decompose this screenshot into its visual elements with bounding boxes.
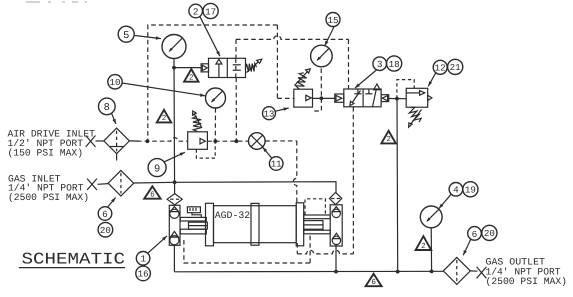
- gauge G15: [311, 45, 333, 67]
- balloon 20 inlet: [98, 222, 113, 237]
- valve V13 flow triangle: [306, 95, 312, 100]
- valve V3 left pilot: [335, 94, 344, 102]
- valve V2 flow arrow: [216, 59, 222, 77]
- balloon 9 leader: [164, 152, 185, 162]
- scan artifact: [26, 1, 87, 3]
- svg-text:19: 19: [465, 185, 476, 196]
- balloon 2: [189, 4, 203, 18]
- svg-text:16: 16: [138, 269, 149, 280]
- label gas outlet: [486, 257, 568, 287]
- filter F22 gas outlet: [443, 257, 470, 284]
- junction gauge G4 to bus: [430, 270, 434, 274]
- left clevis bottom plate: [180, 229, 206, 234]
- svg-text:2: 2: [189, 74, 194, 83]
- balloon 17: [203, 3, 218, 18]
- svg-text:8: 8: [104, 102, 110, 114]
- balloon 13 leader: [275, 108, 289, 112]
- balloon 5 leader: [135, 36, 161, 40]
- wire pilot junction to valve V2 pilot: [174, 67, 201, 69]
- dashed drop from pilot header to pilot valve V2 top: [235, 39, 238, 141]
- warning flag 2 below valve V3: [381, 131, 395, 144]
- label gas inlet: [8, 173, 89, 203]
- svg-text:6: 6: [472, 229, 478, 240]
- port X gas inlet: [87, 179, 97, 190]
- air cylinder body AGD-32: [214, 206, 297, 243]
- wire filter F6 to gas junction: [134, 181, 175, 184]
- wire right check housing down to outlet bus: [335, 244, 337, 272]
- right check top ball: [332, 209, 340, 217]
- dashed vent L under valve V13: [313, 98, 322, 111]
- right clevis top plate: [304, 215, 330, 219]
- balloon 2 leader: [200, 16, 220, 56]
- svg-text:4: 4: [453, 185, 459, 196]
- filter F8 air drive inlet: [104, 128, 130, 160]
- valve V3 right cell vent tee: [365, 89, 372, 94]
- balloon 4: [449, 183, 463, 197]
- balloon 15 leader: [325, 26, 335, 46]
- valve V2 body: [209, 58, 246, 77]
- wire filter F8 outlet to junction: [129, 140, 138, 142]
- junction gauge G10 tee: [213, 139, 217, 143]
- balloon 8 leader: [112, 113, 116, 124]
- svg-text:2: 2: [162, 114, 167, 123]
- valve V3 right pilot: [381, 95, 389, 102]
- warning flag 2 below gauge G4: [416, 236, 432, 251]
- balloon 11 leader: [263, 147, 273, 159]
- svg-text:17: 17: [205, 6, 216, 17]
- valve V13 spring: [295, 69, 311, 89]
- dashed regulated-air bus shutoff valve to corner: [265, 140, 297, 142]
- balloon 18: [387, 56, 402, 71]
- dashed pilot header y=39.4 with crossover hump: [236, 36, 349, 40]
- warning flag 2 near valve V2: [184, 69, 198, 82]
- balloon 10 leader: [122, 83, 205, 97]
- dashed air line stub at right end plate: [296, 243, 298, 254]
- valve V3 left cell arrow: [350, 91, 361, 106]
- balloon 6 outlet leader: [463, 239, 471, 256]
- regulator R9 body: [188, 132, 208, 150]
- junction pilot valve drop: [235, 139, 239, 143]
- wire gas outlet bus: [174, 270, 443, 273]
- warning flag 6 near gas inlet: [144, 186, 160, 199]
- dashed gauge G15 sensing line: [320, 68, 322, 98]
- balloon 12 leader: [428, 72, 436, 86]
- svg-text:2: 2: [193, 6, 199, 17]
- regulator R9 spring: [193, 111, 202, 132]
- svg-text:12: 12: [435, 63, 446, 74]
- left check top ball: [170, 209, 179, 218]
- right piston rod: [304, 221, 323, 230]
- valve V2 blocked symbol: [233, 65, 241, 70]
- regulator R9 flow triangle: [200, 138, 205, 144]
- dashed vent header y=253.9 with humps: [297, 250, 353, 254]
- balloon 4 leader: [439, 194, 452, 209]
- relief R12 spring: [409, 107, 422, 127]
- wire valve V13 outlet to valve V3 pilot: [313, 97, 335, 99]
- valve V11 circle-X: [248, 133, 265, 150]
- svg-text:6: 6: [371, 278, 376, 287]
- wire gauge G4 sensing drop: [430, 228, 432, 272]
- check valve CV-right diamond: [329, 192, 341, 204]
- left vent step line: [192, 213, 201, 218]
- left check housing: [169, 205, 180, 245]
- wire left check housing down to outlet bus: [173, 245, 175, 272]
- svg-text:5: 5: [123, 30, 129, 42]
- port X air drive inlet: [86, 136, 96, 147]
- svg-text:6: 6: [102, 209, 108, 220]
- svg-text:20: 20: [100, 225, 111, 236]
- svg-text:1: 1: [140, 254, 146, 265]
- dashed drop from pilot header to valve V3 top: [348, 39, 350, 89]
- dashed gauge G10 sensing line: [214, 108, 216, 141]
- port X gas outlet: [477, 267, 487, 278]
- wire air inlet X to filter F8: [96, 140, 104, 142]
- left check top seat: [170, 207, 178, 212]
- dashed gas-section boundary bottom left: [184, 240, 310, 263]
- valve V2 spring: [246, 59, 262, 72]
- right check housing: [330, 205, 342, 246]
- svg-text:11: 11: [271, 160, 282, 170]
- gauge G4: [420, 206, 442, 228]
- title SCHEMATIC: [19, 250, 125, 268]
- svg-text:(150 PSI MAX): (150 PSI MAX): [8, 147, 84, 158]
- left piston rod: [189, 222, 208, 229]
- dashed regulated-air bus regulator to shutoff valve: [207, 140, 248, 142]
- valve V3 left cell vent tee: [354, 89, 361, 94]
- wire outlet filter to gas outlet X: [470, 270, 477, 272]
- dashed air line down right side with hump over gas line: [293, 141, 297, 203]
- right clevis bottom plate: [304, 230, 330, 234]
- svg-text:10: 10: [109, 77, 120, 88]
- balloon 20 outlet: [482, 225, 497, 240]
- svg-text:AGD-32: AGD-32: [215, 210, 250, 221]
- svg-text:(2500 PSI MAX): (2500 PSI MAX): [486, 276, 568, 287]
- svg-text:(2500 PSI MAX): (2500 PSI MAX): [8, 192, 89, 203]
- left clevis top plate: [180, 217, 206, 221]
- right check bottom ball: [332, 236, 340, 244]
- left check bottom ball: [170, 236, 179, 245]
- svg-text:SCHEMATIC: SCHEMATIC: [22, 250, 126, 268]
- junction main line to bus: [396, 270, 400, 274]
- balloon 6 inlet: [98, 207, 112, 221]
- relief R12 internal port: [406, 91, 425, 96]
- dashed boundary right segment down to valve V13 inlet: [277, 25, 293, 98]
- balloon 9: [148, 159, 166, 177]
- filter F6 gas inlet: [108, 170, 134, 196]
- dashed regulated-air bus y=141.2 left of regulator with hump over gas line: [137, 138, 188, 142]
- valve V13 body: [294, 89, 313, 107]
- wire gas inlet X to filter F6: [98, 183, 109, 186]
- warning flag 2 left of gauge G10: [157, 110, 171, 123]
- balloon 3 leader: [355, 70, 377, 89]
- svg-text:2: 2: [386, 135, 391, 144]
- dashed gas-section boundary riser: [309, 234, 311, 263]
- dashed regulator feedback loop: [196, 141, 215, 158]
- balloon 21: [448, 59, 463, 74]
- wire valve V3 right pilot to relief R12: [389, 98, 407, 100]
- balloon 5: [118, 26, 134, 42]
- svg-text:2: 2: [421, 242, 426, 251]
- balloon 6 outlet: [468, 227, 482, 241]
- junction gas inlet tee: [173, 180, 177, 184]
- svg-text:6: 6: [150, 191, 155, 200]
- dashed air-circuit boundary (top and left): [148, 25, 278, 141]
- dashed box around right clevis: [305, 199, 325, 215]
- warning flag 6 below outlet bus: [366, 274, 382, 287]
- label air drive inlet: [8, 129, 96, 159]
- junction relief pilot tee: [395, 97, 399, 101]
- valve V2 pilot box: [201, 64, 208, 72]
- balloon 8: [99, 98, 116, 115]
- valve V3 right cell arrow: [373, 84, 381, 107]
- balloon 3: [373, 57, 387, 71]
- svg-text:9: 9: [154, 163, 160, 175]
- relief R12 outlet arrow: [428, 95, 432, 100]
- wire main gas output line down: [396, 99, 399, 272]
- balloon 1 leader: [148, 236, 167, 253]
- left distance piece vent box: [187, 207, 200, 213]
- svg-text:3: 3: [377, 59, 383, 70]
- balloon 12: [433, 60, 447, 74]
- junction filter F8 outlet: [146, 139, 150, 143]
- relief R12 body: [406, 88, 428, 107]
- balloon 11: [269, 157, 283, 171]
- right check bottom seat: [333, 233, 341, 238]
- right check top seat: [332, 207, 340, 212]
- gauge G5: [162, 35, 186, 59]
- balloon 16: [136, 266, 151, 281]
- cylinder right end plate: [296, 203, 304, 246]
- check valve CV-left diamond: [167, 194, 182, 205]
- svg-text:21: 21: [450, 62, 462, 73]
- junction gauge G15 tee: [320, 96, 324, 100]
- balloon 15: [326, 13, 340, 27]
- balloon 10: [108, 75, 122, 89]
- svg-text:18: 18: [389, 59, 400, 70]
- wire gas supply line to right check: [175, 182, 336, 193]
- gauge G10: [206, 88, 226, 108]
- svg-text:20: 20: [484, 228, 495, 239]
- balloon 19: [463, 182, 478, 197]
- label AGD-32: [215, 210, 250, 221]
- left check bottom seat: [170, 231, 178, 237]
- junction right check to bus: [334, 270, 338, 274]
- cylinder center tie bar: [251, 203, 259, 245]
- valve V3 body: [344, 89, 381, 107]
- cylinder left end plate: [206, 203, 214, 246]
- wire gauge G5 down through pilot junction to gas junction: [173, 59, 176, 194]
- dashed exhaust line from valve V3 down: [352, 107, 354, 254]
- balloon 1: [136, 251, 150, 265]
- svg-text:15: 15: [327, 15, 338, 26]
- dashed pilot loop of relief R12: [397, 80, 414, 99]
- balloon 13: [263, 107, 276, 120]
- balloon 6 inlet leader: [108, 198, 116, 208]
- junction gauge G5 / pilot tee: [172, 66, 176, 70]
- svg-text:13: 13: [264, 109, 275, 119]
